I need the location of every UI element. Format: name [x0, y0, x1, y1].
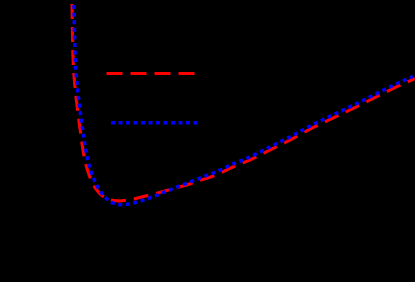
blue dotted curve [74, 5, 413, 205]
red dashed curve [72, 0, 415, 201]
legend blue dotted sample [111, 121, 198, 125]
legend red dashed sample [107, 72, 196, 75]
